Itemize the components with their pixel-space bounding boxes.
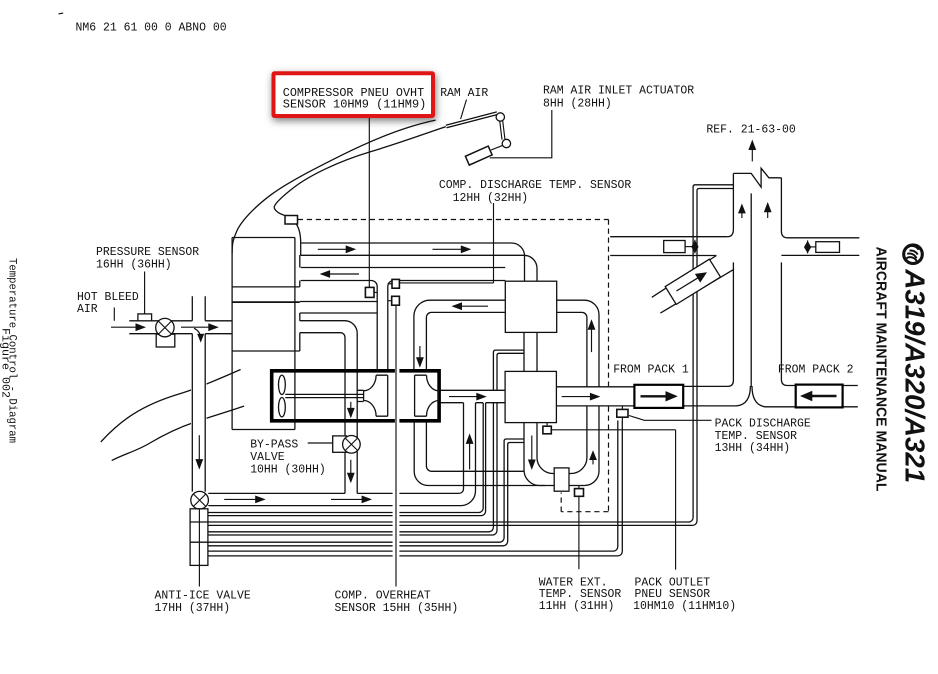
ram air label leader [461,100,467,120]
hot bleed pipe bottom line [129,333,232,335]
flow arrow into turbine down [419,346,421,359]
pack outlet pneu sensor 10HM10 body [546,423,548,427]
hot bleed pipe top line [129,320,232,322]
flow arrow riser P1 up [469,442,471,469]
tee vent stubs above hot bleed pipe [192,296,205,321]
column divider 3 [232,350,300,352]
flow arrow main pipe mid [449,396,478,398]
linkage pivot circle B [502,139,510,147]
heat exchanger column right wall [294,238,296,430]
column divider 1 [232,286,300,288]
ram duct outer S-curve [232,120,436,253]
comp overheat sensor 15HH body [388,300,392,302]
ram air inlet actuator leader [490,110,552,158]
column wall stub at pipe1 start [300,243,302,255]
actuator piston rod [491,145,503,150]
spray duct above main pipe [493,350,524,390]
svg-text:BY-PASS: BY-PASS [250,439,298,452]
svg-text:COMP. OVERHEAT: COMP. OVERHEAT [335,590,431,603]
pack air inlet sensor on dashed boundary [285,216,298,225]
pack2 pipe top line with duct wall corner [781,262,795,385]
svg-text:RAM AIR: RAM AIR [440,87,488,100]
svg-text:A319/A320/A321: A319/A320/A321 [900,268,931,483]
by-pass valve circle [343,436,361,454]
tiny dash mark top-left [59,12,64,15]
jet pump diagonal pipe lower wall [660,269,734,313]
by-pass valve square [333,436,347,452]
compressor pneu ovht sensor 10HM9 body [374,291,377,293]
svg-text:SENSOR 10HM9 (11HM9): SENSOR 10HM9 (11HM9) [283,99,427,112]
return pipe R1 bottom line with tee down to compressor inlet [301,281,378,372]
pipe bottom line fork into duct Y [683,386,750,406]
svg-text:RAM AIR INLET ACTUATOR: RAM AIR INLET ACTUATOR [543,85,694,98]
ram duct inner S-curve [274,127,446,216]
bundle pipe P6 with riser to pack discharge sensor [208,421,618,552]
svg-text:PRESSURE SENSOR: PRESSURE SENSOR [96,246,199,259]
supply pipe S1 bottom line with elbow [301,255,537,281]
svg-text:PNEU SENSOR: PNEU SENSOR [635,588,711,601]
return pipe R1 bottom right part of tee [388,281,506,372]
svg-text:Figure 002: Figure 002 [0,328,11,398]
white halo for anti-ice branch over curves [191,372,207,470]
flow arrows bundle pipe [224,498,257,500]
pipe break symbol [733,168,781,187]
pack 2 flow control valve [796,385,843,408]
anti-ice branch pipe walls [192,334,205,492]
svg-text:8HH (28HH): 8HH (28HH) [543,98,612,111]
crossram pipe S1x left segment top line [610,236,727,238]
flow arrows main duct up [741,212,743,218]
air cycle machine bold box right part [399,371,439,421]
ram exhaust duct lower curve [112,406,244,461]
hot bleed shutoff valve square [156,334,175,347]
fan feed pipe S3 bottom line elbow [300,333,345,494]
flow arrow riser to turbine up [591,328,593,352]
column top edge [232,237,295,239]
jet pump flow arrow [677,277,700,291]
turbine feed pipe S2b top line elbow down to box B [414,300,505,371]
svg-text:TEMP. SENSOR: TEMP. SENSOR [539,588,621,601]
jet pump body [665,259,720,304]
anti-ice valve actuator rect [190,509,208,566]
pressure sensor leader [144,272,146,314]
flow arrow U-pipe down [531,436,533,462]
return pipe R1 top line [301,267,506,269]
air cycle machine bold box left part [272,371,395,421]
vertical pipe duct walls below S1x junction [727,173,733,236]
svg-text:REF. 21-63-00: REF. 21-63-00 [706,123,795,136]
compressor pneu ovht sensor leader [368,118,370,288]
tray below ACM [232,429,295,431]
pack discharge temp sensor leader [629,416,712,421]
ram air inlet flap [446,112,498,128]
heat exchanger column left wall [231,238,233,430]
riser inner line [557,312,587,386]
jet pump diagonal pipe upper wall [652,256,717,298]
short pipe S2a from column [300,302,377,314]
bundle pipe P1 top line with bypass tee gap and elbow up [208,403,463,494]
pack outlet pneu sensor leader [551,430,675,570]
flow arrow after valve [181,326,210,328]
flow arrow bypass inside ACM [350,402,352,410]
crossram pipe S1x left bottom line [610,255,716,257]
svg-text:ANTI-ICE VALVE: ANTI-ICE VALVE [155,590,251,603]
main discharge pipe left of box2 [439,389,505,391]
svg-text:VALVE: VALVE [250,451,284,464]
water ext temp sensor 11HH [578,486,580,489]
flow arrow turbine feed left [461,305,489,307]
fan feed pipe S3 top line elbow down [300,321,357,494]
svg-text:17HH (37HH): 17HH (37HH) [155,602,231,615]
column setback wall segments [299,255,301,351]
svg-text:NM6 21 61 00 0 ABNO 00: NM6 21 61 00 0 ABNO 00 [76,21,227,34]
flow arrows supply pipe S1 [318,248,348,250]
red highlight box with shadow [274,73,434,116]
water extractor U-pipe inner boundary [537,406,587,474]
compressor wheel [364,375,377,416]
crossram pipe S1x right bottom line [781,254,859,256]
bundle pipe P5 with riser to U-pipe tee [190,439,524,542]
flow arrow extractor riser up [592,459,594,465]
svg-text:16HH (36HH): 16HH (36HH) [96,258,172,271]
svg-text:13HH (34HH): 13HH (34HH) [715,442,791,455]
svg-text:10HM10 (11HM10): 10HM10 (11HM10) [633,600,736,613]
pack 1 flow control valve [634,385,683,408]
svg-text:12HH (32HH): 12HH (32HH) [453,192,529,205]
dashed pack boundary top [298,219,609,221]
dashed pack boundary right with notch [561,220,608,512]
airbus logo [904,245,923,264]
turbine outlet pipe down to water extractor outer [414,421,545,486]
curved flow arrow into branch [194,328,201,338]
ram exhaust duct upper curve [101,370,241,442]
turbine wheel [426,375,438,416]
compressor waist stubs [357,390,363,401]
crossram butterfly valve left [694,240,696,254]
flow arrow anti-ice branch down [198,435,200,461]
ref arrow up [751,149,753,162]
comp discharge temp sensor leader [399,203,493,283]
fan blades [279,375,286,394]
column divider 2 [232,301,300,303]
svg-text:AIR: AIR [77,303,98,316]
condenser box2 [505,371,556,422]
crossram valve body left [664,241,685,253]
shaft [285,394,363,397]
water extractor U-pipe outer boundary [524,406,599,486]
svg-text:10HH (30HH): 10HH (30HH) [250,464,326,477]
svg-text:AIRCRAFT MAINTENANCE MANUAL: AIRCRAFT MAINTENANCE MANUAL [873,247,890,492]
pipe from pack1 valve to duct with wall [683,262,733,386]
flow arrow return pipe R1 left [329,273,360,275]
water extractor body [554,468,569,491]
white halo band for sensor leader over bundle [393,488,400,561]
svg-text:TEMP. SENSOR: TEMP. SENSOR [715,430,797,443]
svg-text:FROM PACK 2: FROM PACK 2 [778,364,854,377]
crossram butterfly valve right [807,240,809,253]
comp overheat sensor leader [395,305,397,586]
flow arrow hot bleed inlet [111,326,138,328]
bundle pipe P3 long line to big duct riser [190,185,733,522]
main discharge pipe right of box2 [556,387,634,406]
actuator linkage rods [500,121,505,140]
pack2 pipe to duct with Y fork [752,386,796,407]
pressure sensor 16HH body [138,314,152,321]
riser from box1 to box2 [524,332,537,371]
svg-text:HOT BLEED: HOT BLEED [77,291,139,304]
hot bleed air label leader [113,308,115,321]
reheater box1 [505,281,556,332]
water ext temp sensor leader [578,496,580,569]
crossram valve body right [816,242,840,253]
bundle pipe P4 with riser up to spray duct [208,403,493,532]
svg-text:11HH (31HH): 11HH (31HH) [539,600,615,613]
turbine outlet pipe inner [426,421,524,472]
flow arrow main pipe right [562,396,592,398]
anti-ice valve label leader [198,509,200,587]
pack1 valve stub pipes right side [843,386,858,407]
anti-ice valve circle [191,491,209,509]
svg-text:FROM PACK 1: FROM PACK 1 [613,364,689,377]
riser from U-pipe up to turbine feed elbow outer [557,300,599,387]
ram duct inner wall into column [296,224,301,243]
ram air inlet actuator body [465,146,492,165]
linkage pivot circle A [496,113,504,121]
svg-text:SENSOR 15HH (35HH): SENSOR 15HH (35HH) [335,602,459,615]
svg-text:PACK DISCHARGE: PACK DISCHARGE [715,418,811,431]
turbine feed pipe S2b bottom line elbow [426,312,505,371]
flow arrow bypass below valve [350,460,352,475]
bundle pipe P2 with riser [208,403,483,513]
hot bleed shutoff valve circle [156,318,174,336]
comp discharge temp sensor 12HH body [388,283,392,285]
by-pass valve label leader [308,442,333,444]
pack discharge temp sensor 13HH body [621,406,623,421]
duct centerline [750,193,752,387]
supply pipe S1 top line with elbow down to box1 [301,243,525,281]
svg-text:COMP. DISCHARGE TEMP. SENSOR: COMP. DISCHARGE TEMP. SENSOR [439,179,631,192]
bundle pipe P1 bottom line with elbow up [208,403,475,506]
